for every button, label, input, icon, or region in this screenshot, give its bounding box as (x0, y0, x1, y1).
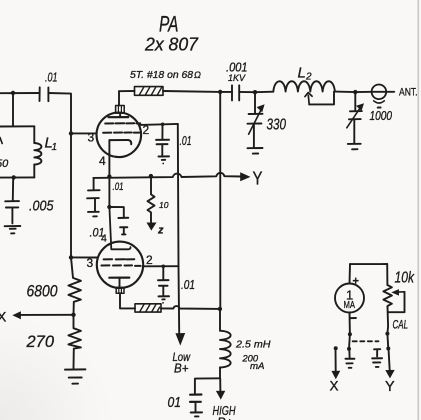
tube V2 cathode (109, 207, 130, 249)
svg-text:10: 10 (159, 200, 169, 210)
variable capacitor output loading (347, 92, 364, 149)
svg-text:6800: 6800 (27, 282, 58, 301)
svg-text:Ω: Ω (194, 70, 201, 80)
svg-text:mA: mA (250, 361, 265, 372)
ground (below 270) (65, 369, 85, 383)
resistor 270 (26, 315, 81, 369)
svg-text:1KV: 1KV (228, 73, 247, 84)
tube V2 plate (109, 278, 129, 294)
svg-text:X: X (330, 379, 339, 394)
ground (below C2) (5, 226, 21, 233)
node junction 330 cap (253, 90, 257, 94)
svg-text:.01: .01 (45, 70, 58, 85)
svg-text:Y: Y (253, 169, 263, 189)
capacitor C1 .01 (input coupling) (40, 70, 58, 102)
resistor suppressor 5T #18 on 68ohm (V1) (119, 70, 220, 95)
svg-text:.01: .01 (181, 278, 195, 292)
svg-text:2x 807: 2x 807 (144, 35, 199, 55)
svg-text:1: 1 (52, 142, 58, 153)
wire tank top (0, 125, 34, 127)
inductor RFC 2.5 mH (220, 309, 271, 378)
tube V1 cathode lead down (108, 140, 110, 176)
potentiometer 10k (383, 264, 414, 334)
wire to L2 (255, 91, 273, 94)
wire L2 to output (335, 91, 372, 94)
svg-text:Y: Y (385, 379, 395, 395)
wire to HV bypass (195, 378, 220, 393)
node junction plate bus top (218, 90, 222, 94)
switch S1 pole B (CAL side) (385, 332, 395, 395)
connector ANT feedthrough (370, 85, 418, 124)
svg-text:01: 01 (168, 395, 182, 411)
wire V2 pin2 to screen bus (143, 265, 179, 267)
svg-text:.01: .01 (180, 133, 192, 148)
mark left edge (cut off component) (0, 138, 2, 144)
wire cathode V2 from Y line (108, 177, 110, 207)
node junction plate bus bottom (218, 307, 222, 311)
inductor L1 (34, 126, 57, 177)
wire input top-left (0, 92, 40, 94)
wire V1 pin2 to screen bus (141, 124, 178, 125)
svg-text:B+: B+ (174, 361, 189, 376)
tube V1 grid row 1 (105, 122, 140, 124)
tube V1 807 envelope (97, 113, 142, 158)
node junction resistor 10 (149, 174, 153, 178)
capacitor C3 .001 1KV (220, 61, 255, 101)
node junction cathode V2 (107, 205, 111, 209)
wire tank bottom (0, 176, 34, 178)
svg-text:50: 50 (0, 158, 9, 170)
svg-text:270: 270 (26, 332, 55, 351)
svg-text:X: X (0, 309, 7, 325)
svg-text:MA: MA (344, 300, 356, 311)
svg-text:330: 330 (267, 117, 287, 134)
wire Y line (cathode bus) (93, 173, 241, 178)
wire from C1 to grid line (48, 93, 96, 133)
capacitor .01 grid bypass (from cathode junction) (109, 207, 128, 234)
tube V1 grid row 2 (103, 132, 139, 134)
resistor 10 (cathode) (147, 176, 169, 236)
wire meter top to pot (350, 263, 387, 265)
svg-text:PA: PA (159, 12, 179, 37)
svg-text:10k: 10k (395, 270, 415, 287)
inductor L2 (273, 65, 335, 92)
svg-text:2: 2 (146, 253, 153, 267)
wire plate bus vertical (219, 92, 221, 309)
node junction pin3 V2 (69, 255, 73, 259)
meter M1 1mA (335, 264, 364, 334)
tube V2 grid row 1 (104, 258, 135, 260)
svg-text:B+: B+ (217, 415, 234, 420)
capacitor .01 screen bypass V1 (156, 123, 191, 165)
scan edge line (417, 0, 419, 420)
resistor 6800 (27, 257, 81, 314)
node junction cathode V1 (107, 174, 111, 178)
ground (pole B contact) (372, 349, 382, 367)
svg-text:+: + (353, 276, 359, 288)
resistor suppressor (V2 plate) (120, 293, 220, 312)
svg-text:5T. #18 on 68: 5T. #18 on 68 (130, 70, 193, 81)
wire to X arrow (20, 314, 74, 316)
switch S1 pole A (meter side) (347, 332, 352, 357)
capacitor C2 .005 (5, 177, 54, 223)
svg-text:1000: 1000 (370, 109, 393, 123)
svg-text:CAL: CAL (393, 320, 409, 332)
node junction grid V1 (69, 131, 73, 135)
capacitor .01 screen bypass V2 (158, 265, 195, 304)
svg-text:L: L (298, 65, 306, 82)
node Low B+ arrow (175, 333, 185, 346)
switch S1 gang dashed link (353, 340, 379, 342)
tube V2 grid row 2 (101, 264, 140, 267)
node Y arrow (240, 172, 250, 181)
svg-text:.01: .01 (90, 228, 105, 240)
wire junction stub to tank (12, 93, 14, 126)
svg-text:.005: .005 (29, 198, 54, 215)
node HIGH B+ arrow (213, 378, 236, 420)
svg-text:z: z (157, 225, 164, 237)
wire grid bus (left vertical) (70, 133, 72, 257)
node junction output cap (353, 90, 357, 94)
node junction tank bottom (12, 175, 16, 179)
node junction divider (71, 313, 75, 317)
wire V2 pin3 (71, 256, 97, 258)
wire screen supply vertical (178, 124, 179, 333)
tube V2 807 envelope (97, 242, 143, 288)
svg-text:.01: .01 (113, 181, 124, 193)
node X arrow (left) (12, 311, 21, 319)
svg-text:2: 2 (305, 72, 312, 83)
svg-text:3: 3 (88, 131, 95, 145)
svg-text:4: 4 (99, 154, 106, 168)
tube V1 plate top cap (109, 91, 129, 117)
variable capacitor 330 (248, 92, 287, 153)
svg-text:2.5 mH: 2.5 mH (235, 339, 271, 351)
node junction input (11, 91, 15, 95)
capacitor .01 cathode bypass (87, 178, 100, 217)
L2 tap arrow and strap (305, 92, 334, 105)
tube V1 cathode (110, 140, 132, 144)
switch S1 contact X (330, 346, 341, 393)
capacitor 01 HV bypass (168, 395, 203, 417)
ground (pole A contact) (346, 359, 355, 368)
svg-text:ANT.: ANT. (399, 87, 418, 99)
